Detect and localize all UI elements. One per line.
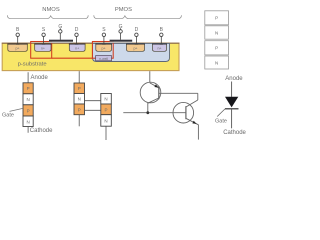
Q2 emitter wire down: [197, 125, 199, 140]
cathode lead: [231, 109, 233, 129]
svg-text:N: N: [26, 97, 29, 102]
n+ region B PMOS: [152, 44, 167, 51]
red SCR path connecting wire along substrate: [52, 57, 93, 59]
svg-text:D: D: [75, 27, 79, 33]
anode wire: [27, 72, 29, 83]
substrate surface line: [2, 42, 180, 44]
svg-text:P: P: [215, 46, 218, 51]
terminal G PMOS: [119, 24, 123, 40]
p-substrate body: [2, 43, 179, 70]
gate PMOS: [110, 40, 133, 42]
Q1 emitter arrow (PNP, points into base): [154, 84, 158, 87]
svg-text:PMOS: PMOS: [115, 7, 132, 13]
n-well region: [93, 43, 170, 61]
layer P anode: [23, 83, 33, 94]
brace PMOS: [94, 15, 182, 18]
Q2 base bar: [185, 106, 187, 119]
wire anode to PNP stack: [78, 71, 80, 83]
svg-text:p+: p+: [133, 47, 137, 51]
svg-text:B: B: [16, 27, 20, 33]
n-well label box: [96, 56, 112, 61]
svg-text:p-substrate: p-substrate: [18, 61, 47, 67]
svg-text:Gate: Gate: [2, 112, 14, 118]
terminal B PMOS: [160, 27, 164, 44]
svg-text:Anode: Anode: [31, 75, 49, 81]
layer P2: [205, 41, 229, 55]
p+ region B NMOS: [7, 44, 27, 51]
layer P gate: [23, 105, 33, 116]
gate lead: [217, 109, 225, 117]
svg-text:n-well: n-well: [99, 57, 108, 61]
Q1 emitter wire up: [149, 71, 151, 82]
thyristor four-layer stack (bottom left): [2, 72, 53, 134]
layer P1: [205, 11, 229, 25]
Q1 base bar: [158, 86, 160, 99]
Q2 collector diagonal: [186, 100, 198, 107]
svg-text:N: N: [104, 118, 107, 123]
terminal S PMOS: [102, 27, 106, 44]
Q1 collector diagonal: [148, 98, 159, 103]
svg-text:n+: n+: [157, 47, 161, 51]
gate NMOS: [49, 40, 73, 42]
red SCR path rect around PMOS source p+ and n-well: [92, 42, 113, 59]
junction node dot: [146, 111, 149, 114]
svg-text:N: N: [215, 60, 218, 65]
terminal G NMOS: [58, 24, 62, 40]
NPN stack layer N: [101, 115, 112, 127]
svg-text:P: P: [78, 107, 81, 112]
cathode wire: [27, 127, 29, 133]
svg-text:NMOS: NMOS: [42, 7, 60, 13]
terminal S NMOS: [42, 27, 46, 44]
svg-text:Anode: Anode: [225, 76, 243, 82]
PNP stack layer N: [74, 94, 85, 105]
svg-text:B: B: [160, 27, 164, 33]
Q2 emitter arrow (NPN, points outward): [192, 121, 196, 124]
layer N1: [205, 26, 229, 39]
svg-text:n+: n+: [75, 47, 79, 51]
svg-text:N: N: [26, 119, 29, 124]
svg-text:S: S: [102, 27, 106, 33]
red SCR path rect around NMOS source n+: [31, 42, 52, 59]
transistor Q2 NPN circle: [173, 102, 194, 123]
svg-text:Gate: Gate: [215, 118, 227, 124]
n+ region D NMOS: [69, 44, 86, 51]
svg-text:N: N: [78, 97, 81, 102]
gate oxide PMOS: [110, 42, 133, 43]
link wire N-N: [85, 100, 101, 102]
terminal B NMOS: [16, 27, 20, 44]
Q2 emitter diagonal: [186, 118, 199, 125]
brace NMOS: [7, 15, 88, 18]
svg-text:n+: n+: [41, 47, 45, 51]
wire down from PNP stack: [78, 115, 80, 127]
pnpn layer stack (top right): [205, 11, 229, 69]
n+ region S NMOS: [34, 44, 51, 51]
SCR symbol (far right): [215, 76, 247, 136]
PNP stack layer P: [74, 104, 85, 115]
svg-text:S: S: [42, 27, 46, 33]
layer N: [23, 94, 33, 105]
anode lead: [231, 82, 233, 97]
svg-text:P: P: [78, 86, 81, 91]
gate oxide NMOS: [49, 42, 73, 43]
p+ region D PMOS: [126, 44, 145, 51]
link wire P-P: [85, 109, 101, 111]
Q1 collector wire down: [147, 103, 149, 113]
wire down from NPN stack: [105, 126, 107, 140]
terminal D PMOS: [135, 27, 139, 44]
svg-text:p+: p+: [102, 47, 106, 51]
transistor Q1 PNP circle: [140, 82, 161, 103]
svg-text:P: P: [104, 107, 107, 112]
layer N2: [205, 56, 229, 69]
PNP stack layer P: [74, 83, 85, 94]
cross-coupled transistor circuit (bottom centre-right): [123, 71, 198, 139]
Q1 emitter diagonal: [150, 83, 159, 88]
wire NPN collector up: [197, 93, 199, 100]
svg-text:P: P: [215, 16, 218, 21]
Q2 base wire (from left): [123, 112, 186, 114]
svg-text:P: P: [27, 108, 30, 113]
layer N cathode: [23, 116, 33, 127]
Q1 base wire to right: [159, 92, 198, 94]
terminal D NMOS: [75, 27, 79, 44]
svg-text:Cathode: Cathode: [223, 130, 246, 136]
svg-text:N: N: [215, 30, 218, 35]
gate pointer wire: [10, 108, 23, 111]
two-transistor layer model (bottom middle): [74, 71, 111, 140]
NPN stack layer N: [101, 94, 112, 105]
NPN stack layer P: [101, 104, 112, 115]
svg-text:D: D: [135, 27, 139, 33]
svg-text:N: N: [104, 97, 107, 102]
svg-text:P: P: [27, 86, 30, 91]
diode triangle: [225, 97, 238, 108]
svg-text:p+: p+: [15, 47, 19, 51]
svg-text:Cathode: Cathode: [30, 128, 53, 134]
cathode bar: [225, 108, 239, 110]
p+ region S PMOS: [95, 44, 112, 51]
